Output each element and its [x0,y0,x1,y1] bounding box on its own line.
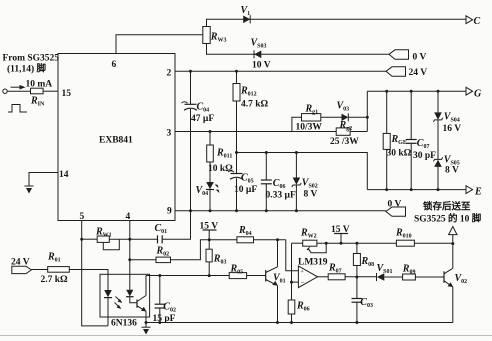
wire pin 9 to 0V flag [175,210,386,212]
node junction C05 [235,151,238,154]
arrow up to SG3525 [449,227,457,245]
node junction C06 [265,151,268,154]
svg-text:0 V: 0 V [413,53,427,63]
zener VS02 8 V [292,153,318,211]
svg-text:0.33 µF: 0.33 µF [266,191,296,201]
light arrows [115,297,123,310]
wire R02 up to 15V line [171,240,237,260]
junction dots on 0V line [189,209,192,212]
svg-text:10 µF: 10 µF [234,185,257,195]
potentiometer RW2 line [292,242,303,244]
terminal E [466,186,482,198]
svg-text:4.7 kΩ: 4.7 kΩ [241,100,269,110]
svg-text:6: 6 [112,60,117,70]
svg-text:2.7 kΩ: 2.7 kΩ [41,275,69,285]
wire pin4 node to R02 line [128,258,131,261]
G line [367,90,466,92]
resistor R02 [156,246,171,263]
svg-text:30 pF: 30 pF [413,151,436,161]
svg-text:25 /3W: 25 /3W [330,137,359,147]
svg-text:10 V: 10 V [252,61,271,71]
wire V03 to gate vertical [348,116,367,118]
resistor R03 [206,240,226,277]
zener VS05 8 V [433,154,459,191]
wire input to RIN [7,90,30,92]
wire pin 6 up and right [116,35,203,54]
wire R05 to V01 base [247,275,266,277]
wire RW1 to pin4 and C01 [109,238,157,240]
potentiometer RW2 [300,227,328,252]
wire RIN to pin 15 [43,90,58,92]
scan border artifact line at bottom [0,335,492,337]
ground below 6N136 [142,323,151,335]
svg-text:15: 15 [62,89,72,99]
bottom rail [146,322,453,324]
resistor R06 [288,300,309,323]
wire R012 down to E-node line [236,101,238,153]
annotation to SG3525 pin 10 [414,201,482,225]
current arrow 10 mA [11,79,53,89]
opto LED [104,274,112,326]
wire pin 2 / 24V rail [175,70,386,72]
wire RW2 to 15V junction [317,242,397,244]
svg-text:16 V: 16 V [443,124,462,134]
capacitor C07 30pF [406,90,436,191]
capacitor C02 15pF [153,276,176,325]
svg-text:锁存后送至: 锁存后送至 [423,201,471,213]
gate vertical wire [366,91,368,131]
resistor R04 [237,225,254,243]
node input: From SG3525 annotation [3,54,60,75]
node junction C04 top [189,70,192,73]
svg-text:−: − [301,279,305,287]
wire RW3 top to C line [207,19,467,26]
wire pin 3 output line [175,131,367,133]
resistor R07 [328,263,345,280]
diode V1 [241,5,251,24]
resistor R09 [402,263,416,280]
terminal C [466,16,481,27]
potentiometer RW1 [95,227,119,250]
diode VS01 [377,263,393,281]
svg-text:From SG3525: From SG3525 [3,54,60,64]
capacitor C05 10uF electrolytic [228,153,257,211]
resistor RIN [30,88,45,107]
diode V03 [337,100,350,121]
opto photodiode [126,260,137,303]
resistor R010 [395,228,414,247]
ground at pin 14 [25,173,59,194]
node junction R012 top [235,70,238,73]
svg-text:LM319: LM319 [298,257,328,267]
comparator LM319 [298,257,328,287]
E line [367,189,466,191]
svg-text:2: 2 [167,69,172,79]
resistor R05 [229,264,246,279]
pulse waveform symbol [8,105,27,113]
wire C01 to 0V line riser [162,211,190,240]
svg-text:24 V: 24 V [409,68,428,78]
svg-text:15 pF: 15 pF [153,314,176,324]
wire - input [292,281,299,283]
zener VS03 10 V [251,38,271,71]
wire LM319 output to R07 [318,276,329,278]
terminal G [466,87,482,99]
svg-text:E: E [474,187,482,198]
opto transistor [137,276,146,323]
wire R09 to V02 base [415,276,444,278]
flag 0 V (top) [389,50,426,63]
feedback/R06 vertical [291,243,293,300]
resistor Rg1 10/3W [296,104,323,133]
transistor V02 NPN [444,244,467,323]
wire node down to + input of LM319 [286,240,299,271]
svg-text:SG3525 的 10 脚: SG3525 的 10 脚 [414,213,482,225]
gate resistor network riser [292,117,302,131]
flag 24 V (left) [11,257,31,273]
svg-text:(11,14) 脚: (11,14) 脚 [7,63,47,75]
svg-text:47 µF: 47 µF [191,114,214,124]
wire C04 to 0V line [190,109,192,211]
svg-text:6N136: 6N136 [111,319,137,329]
wire RW1 line pin5 to pin4 [82,238,98,240]
capacitor C06 0.33uF [261,153,296,211]
resistor R011 10k [207,132,233,175]
optocoupler 6N136 box [100,274,150,328]
svg-text:0 V: 0 V [388,200,402,210]
node junction VS02 [295,151,298,154]
input terminal circle [3,89,7,93]
resistor R08 [353,242,374,278]
node junction R011 top [209,130,212,133]
svg-text:C: C [474,16,481,27]
supply 15 V (right) [331,225,350,245]
wire Rg1 to V03 [321,116,342,118]
svg-text:9: 9 [167,207,172,217]
LED V04 [196,162,220,211]
svg-text:8 V: 8 V [304,189,318,199]
E-node horizontal line [237,153,368,190]
svg-text:14: 14 [59,170,69,180]
svg-text:10/3W: 10/3W [296,123,323,133]
resistor R012 4.7k [233,71,269,109]
supply 15 V (left) [200,221,219,241]
capacitor C04 47uF electrolytic [182,102,215,124]
zener VS04 16 V [433,90,461,134]
svg-text:G: G [474,89,482,100]
wire R010 to collector node [414,242,452,244]
wire R01 to opto LED [69,270,108,275]
flag 0 V (mid right) [386,200,406,217]
svg-text:3: 3 [167,129,172,139]
resistor Rg2 25/3W (lower branch on pin3 line) [330,120,359,147]
wire RW3 bottom to VS03 line [207,44,390,55]
op-amp U? : EXB841 driver IC box [58,54,175,223]
wire VS01 to R09 [384,276,402,278]
transistor V01 NPN [266,240,286,323]
potentiometer RW3 [203,27,227,44]
svg-text:+: + [300,269,304,276]
capacitor C03 [352,277,373,323]
flag 24 V (top) [386,67,427,78]
svg-text:30 kΩ: 30 kΩ [387,149,412,159]
svg-text:EXB841: EXB841 [99,136,133,146]
resistor R01 2.7k [41,252,70,285]
wire opto collector to base line [146,275,160,277]
resistor RGE 30k between G and E [383,90,411,191]
wire 24V flag to R01 [31,269,47,271]
wire R07 to node [345,276,376,278]
wire pin 5 down [82,221,108,326]
wire pin 4 down [129,221,131,260]
wire between zeners [437,120,439,159]
wire R04 to V01 collector node [254,239,286,241]
wire C04 branch down [190,71,192,104]
V01 base line [160,275,229,277]
svg-text:10 kΩ: 10 kΩ [208,164,233,174]
svg-text:8 V: 8 V [445,166,459,176]
capacitor C01 [155,223,168,243]
